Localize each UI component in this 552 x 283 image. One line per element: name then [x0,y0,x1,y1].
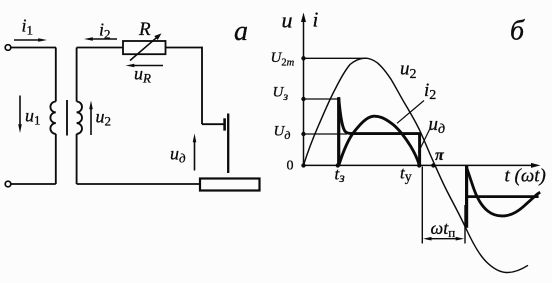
leader ud label [418,128,430,153]
i2 drop at ty [418,134,421,166]
wire secondary bottom to cathode block [77,183,200,185]
svg-text:π: π [435,147,445,164]
transformer secondary winding [77,102,82,134]
wire right vertical down [201,47,203,125]
diode cathode block [200,179,260,191]
axis dot U2m [301,56,305,60]
svg-text:t (ωt): t (ωt) [505,166,546,187]
wire secondary top vertical [76,48,78,102]
transformer primary winding [50,102,55,134]
i2 current hump [339,116,419,165]
graph y-axis [303,21,305,166]
axis dot t3 [336,163,340,167]
wire resistor to right corner [166,47,203,49]
svg-text:u: u [282,7,293,32]
terminal bottom-left input [5,181,11,187]
sine u2 curve [304,58,529,272]
svg-text:i: i [313,7,319,31]
omega-t-pause interval arrow [427,238,461,240]
arrow i2 [92,38,118,40]
wire secondary top to resistor [77,47,123,49]
wire to anode [202,123,224,125]
wire primary top [11,47,56,49]
negative current bowl [466,166,540,216]
ud flat burning line [351,132,421,135]
level line Uz [304,98,339,100]
wire primary left vertical [55,48,57,102]
negative burning flat line [466,195,539,198]
axis dot origin [301,163,305,167]
level line Ud [304,133,348,135]
axis dot ty [417,163,421,167]
level line U2m [304,57,368,59]
resistor R body [123,41,166,54]
negative ignition spike [465,165,468,227]
leader i2 label [397,101,424,124]
axis dot pi [431,163,435,167]
wire primary bottom vertical [55,134,57,184]
transformer core [66,100,68,136]
resistor R variable arrow [130,38,157,61]
wire secondary bottom vertical [76,134,78,184]
ud drop to burning level [339,97,352,133]
ignition spike t3 [337,97,340,165]
svg-text:R: R [138,19,151,40]
arrow u1 [19,96,21,126]
svg-text:а: а [234,16,248,47]
tick next-ignition vertical thin [464,205,466,244]
terminal top-left input [5,45,11,51]
wire primary bottom [11,183,56,185]
diode anode plate [223,118,226,130]
arrow ud circuit [194,142,196,171]
arrow uR [133,65,163,67]
axis dot Ud [301,132,305,136]
svg-text:б: б [510,16,525,47]
arrow i1 [14,39,40,41]
arrow u2 [90,109,92,136]
axis dot Uz [301,97,305,101]
graph x-axis [304,164,533,166]
svg-text:0: 0 [287,159,294,174]
diode cathode lead [227,114,229,174]
tick ty vertical thin [421,167,423,244]
